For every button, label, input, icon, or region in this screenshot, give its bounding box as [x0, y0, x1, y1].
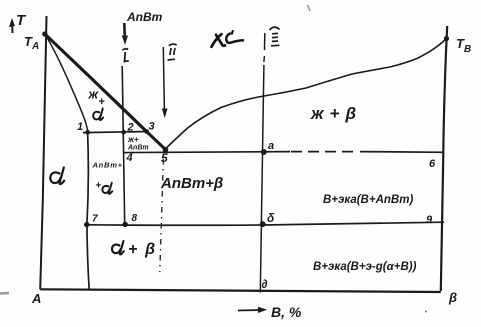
point TB [444, 36, 449, 41]
svg-text:2: 2 [127, 122, 134, 134]
small stray mark top [308, 5, 311, 11]
label II [168, 44, 177, 60]
solidus TA-1 [45, 34, 88, 132]
line II arrow [162, 47, 168, 118]
svg-text:3: 3 [149, 121, 155, 133]
point 2 [121, 130, 126, 135]
tiny dot below B [425, 311, 427, 313]
alpha + B region label [112, 241, 124, 254]
svg-text:+: + [99, 96, 105, 108]
peritectic line 1-2-3 [83, 132, 147, 133]
svg-text:AnBm: AnBm [126, 10, 163, 24]
B,% axis label with arrow [238, 307, 267, 313]
svg-text:1: 1 [77, 121, 83, 133]
liquidus TA-3 thick [45, 34, 147, 132]
liquidus 5-TB [166, 39, 447, 149]
line I vertical [122, 66, 125, 225]
svg-text:5: 5 [161, 151, 168, 165]
svg-text:β: β [448, 290, 457, 305]
label III (rotated roman numeral) [270, 27, 280, 46]
point 3 [144, 129, 149, 134]
point 8 [123, 222, 128, 227]
alpha region label [50, 168, 64, 185]
svg-text:8: 8 [132, 213, 138, 224]
point 7 [84, 222, 89, 227]
big Zh label (liquid) [212, 31, 244, 47]
svg-text:АnВm+β: АnВm+β [160, 175, 223, 192]
svg-text:В+эка(В+э-g(α+В)): В+эка(В+э-g(α+В)) [313, 261, 417, 273]
point a [261, 149, 267, 155]
label I [122, 49, 128, 62]
faint mark left edge bottom [0, 292, 9, 295]
liquidus 3-5 thick [147, 132, 166, 150]
line 7-8-delta-9 [84, 222, 444, 225]
svg-text:АnВm+: АnВm+ [92, 161, 123, 170]
svg-text:A: A [31, 291, 41, 306]
svg-text:a: a [268, 140, 274, 152]
svg-text:ж+β: ж+β [310, 104, 356, 123]
T axis arrow top-left [9, 18, 15, 33]
svg-text:4: 4 [126, 152, 133, 164]
eutectic line 4-5-a-6 [124, 152, 290, 153]
svg-text:9: 9 [426, 214, 433, 226]
vertical line 1-7 [87, 132, 89, 289]
svg-text:+: + [96, 181, 102, 192]
point 5 [163, 147, 169, 153]
svg-text:АnВm: АnВm [127, 145, 149, 152]
svg-text:В, %: В, % [271, 304, 302, 320]
line II dash-dot lower [160, 159, 164, 272]
point 1 [85, 130, 90, 135]
point delta [260, 221, 266, 227]
point TA [42, 31, 47, 36]
left axis [40, 16, 46, 289]
svg-text:+ β: + β [128, 241, 155, 258]
svg-text:ж+: ж+ [127, 135, 139, 144]
AnBm arrow [122, 23, 128, 45]
bottom axis [40, 289, 441, 292]
svg-text:δ: δ [267, 211, 275, 225]
svg-text:∂: ∂ [262, 277, 268, 291]
svg-text:6: 6 [429, 158, 436, 170]
svg-text:В+эка(В+АnВm): В+эка(В+АnВm) [323, 194, 413, 206]
line III vertical [264, 33, 266, 50]
right axis [441, 26, 447, 291]
svg-text:7: 7 [92, 214, 98, 225]
